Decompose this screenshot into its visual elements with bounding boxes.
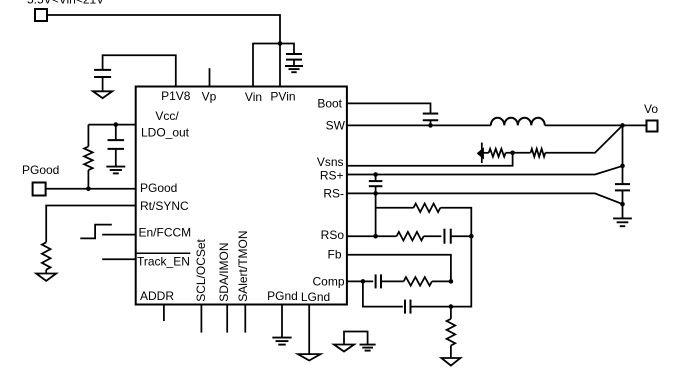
wire P1V8 pin to cap — [103, 55, 176, 86]
wire to R fbgnd — [450, 307, 452, 319]
wire C P1V8 to ground — [102, 77, 104, 91]
wire RS- to RSo — [375, 193, 377, 236]
svg-text:RSo: RSo — [321, 228, 345, 242]
terminal PGood — [33, 183, 46, 196]
svg-text:Rt/SYNC: Rt/SYNC — [140, 199, 189, 213]
pin stub ADDR — [163, 305, 165, 322]
wire Cin to ground — [293, 60, 295, 66]
node RS- tap — [620, 202, 625, 207]
ground earth PGnd — [272, 337, 291, 339]
wire sense row mid — [506, 152, 531, 154]
node RSo left junction — [373, 234, 378, 239]
wire SW to inductor — [347, 124, 491, 126]
wire Vo to output cap — [622, 125, 624, 184]
wire C Boot to SW — [430, 120, 432, 125]
wire RSo — [347, 235, 397, 237]
wire LGnd — [308, 305, 310, 355]
node Vsns junction — [510, 151, 515, 156]
ground earth Cin — [285, 65, 303, 67]
wire junction to PVin pin — [279, 44, 281, 87]
pin stub SDA/IMON — [226, 305, 228, 333]
wire Vsns — [347, 153, 513, 166]
capacitor C out plates — [615, 183, 630, 185]
ground earth tie right — [360, 344, 376, 346]
wire PGood — [46, 188, 136, 190]
wire Track_EN — [102, 258, 136, 260]
wire RSo box right down — [451, 236, 471, 306]
svg-text:PGnd: PGnd — [267, 289, 298, 303]
svg-text:RS-: RS- — [323, 187, 344, 201]
node RS- cap junction — [373, 191, 378, 196]
svg-text:Vin: Vin — [245, 90, 262, 104]
node Vin junction — [278, 41, 283, 46]
resistor R sense2 — [531, 149, 546, 157]
resistor R RSo top — [414, 204, 441, 213]
svg-text:SW: SW — [326, 119, 346, 133]
ground arrow LGnd — [298, 354, 321, 360]
pin stub SAlert/TMON — [244, 305, 246, 333]
capacitor C comp2 plates — [404, 300, 406, 314]
wire junction to C Vcc — [115, 125, 117, 141]
wire R fbgnd to ground — [450, 346, 452, 359]
wire C out to ground — [622, 190, 624, 218]
ground earth output — [613, 217, 632, 219]
wire sense row left — [482, 152, 489, 154]
resistor R fbgnd — [447, 319, 456, 346]
wire Boot to C boot — [347, 103, 431, 113]
resistor R pullup PGood — [84, 147, 93, 171]
wire LDO_out — [88, 124, 135, 126]
IC U1 body — [136, 87, 347, 305]
svg-text:Comp: Comp — [312, 275, 344, 289]
wire C sense to RS- — [375, 186, 377, 193]
svg-text:Track_EN: Track_EN — [137, 255, 190, 269]
wire sense row right — [545, 125, 622, 152]
svg-text:P1V8: P1V8 — [161, 89, 191, 103]
node RSo right junction — [469, 234, 474, 239]
wire R pullup to PGood — [87, 170, 89, 189]
terminal VIN input — [35, 9, 47, 21]
svg-text:Vo: Vo — [644, 102, 658, 116]
svg-text:PGood: PGood — [22, 163, 59, 177]
wire inductor to Vo — [545, 124, 646, 126]
svg-text:5.5V<Vin<21V: 5.5V<Vin<21V — [27, 0, 104, 7]
wire junction to Vin pin — [253, 44, 280, 87]
svg-text:ADDR: ADDR — [140, 289, 174, 303]
capacitor C P1V8 plates — [94, 69, 111, 71]
svg-text:Boot: Boot — [317, 97, 342, 111]
svg-text:PGood: PGood — [140, 181, 177, 195]
svg-text:SCL/OCSet: SCL/OCSet — [194, 238, 208, 301]
wire C comp to R comp — [381, 280, 404, 282]
node Comp Fb junction — [449, 279, 454, 284]
capacitor C Boot plates — [423, 113, 439, 115]
svg-text:RS+: RS+ — [320, 169, 344, 183]
wire junction to input cap — [280, 44, 294, 55]
wire En/FCCM — [102, 234, 136, 236]
svg-text:SAlert/TMON: SAlert/TMON — [236, 230, 250, 301]
wire VIN to PVin corner — [48, 15, 280, 44]
ground arrow tie left — [334, 345, 354, 352]
wire RSo box top right — [440, 208, 471, 236]
arrow sense to SW — [481, 143, 483, 164]
node SW boot junction — [428, 123, 433, 128]
svg-text:LDO_out: LDO_out — [141, 126, 190, 140]
wire LDO_out to R pullup — [87, 125, 89, 147]
ground arrow fbgnd — [441, 358, 460, 366]
node Comp left junction — [361, 279, 366, 284]
wire RS+ — [347, 166, 623, 175]
pin stub Vp — [209, 68, 211, 86]
wire R Rt to ground — [45, 270, 47, 274]
node Vo junction — [620, 123, 625, 128]
overbar Track_EN — [136, 252, 190, 254]
waveform step symbol En — [80, 225, 112, 239]
wire RSo box top left — [376, 207, 414, 209]
resistor R Rt — [42, 242, 51, 269]
svg-text:Vsns: Vsns — [317, 155, 344, 169]
svg-text:PVin: PVin — [270, 90, 295, 104]
node RS+ cap junction — [373, 172, 378, 177]
wire C RSo right — [451, 235, 472, 237]
svg-text:Vcc/: Vcc/ — [155, 109, 179, 123]
wire C comp2 right — [411, 306, 451, 308]
wire RS- — [347, 193, 623, 204]
wire RS+ to C sense — [375, 175, 377, 182]
svg-text:LGnd: LGnd — [301, 290, 330, 304]
svg-text:Fb: Fb — [327, 248, 341, 262]
wire comp lower branch — [363, 281, 403, 306]
capacitor C Vcc plates — [108, 139, 125, 141]
wire Rt/SYNC — [46, 206, 136, 243]
capacitor C RSo plates — [443, 229, 445, 244]
svg-text:En/FCCM: En/FCCM — [139, 226, 192, 240]
node comp lower junction — [449, 304, 454, 309]
svg-text:Vp: Vp — [202, 90, 217, 104]
wire C Vcc to ground — [115, 149, 117, 167]
wire PGnd — [281, 305, 283, 338]
inductor L1 — [491, 118, 545, 126]
wire R RSo to C RSo — [424, 235, 442, 237]
wire Comp — [347, 280, 373, 282]
capacitor C sense plates — [369, 180, 383, 182]
wire ground tie bridge — [344, 332, 368, 345]
node RS+ tap — [620, 164, 625, 169]
resistor R sense1 — [489, 149, 506, 157]
ground earth C Vcc — [106, 166, 125, 168]
capacitor C comp plates — [375, 274, 377, 288]
ground arrow P1V8 — [93, 91, 113, 98]
pin stub SCL/OCSet — [200, 305, 202, 333]
node LDO_out cap junction — [114, 122, 119, 127]
terminal Vo — [647, 121, 658, 132]
ground arrow Rt — [36, 274, 56, 281]
resistor R comp — [404, 277, 432, 286]
node PGood junction — [86, 187, 91, 192]
capacitor Cin plates — [286, 53, 302, 55]
wire Fb — [347, 255, 451, 282]
wire R comp right — [432, 280, 451, 282]
svg-text:SDA/IMON: SDA/IMON — [217, 242, 231, 301]
resistor R RSo — [397, 232, 424, 241]
